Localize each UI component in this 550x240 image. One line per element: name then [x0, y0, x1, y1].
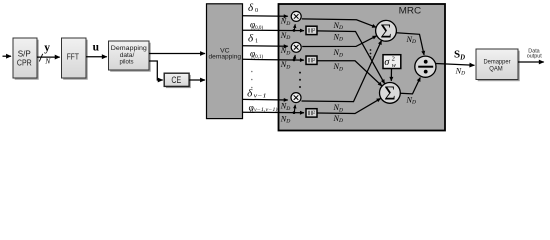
multiplier 3 [291, 93, 301, 103]
svg-text:δ: δ [248, 2, 254, 14]
CE block shadow [166, 75, 191, 88]
vertical dots near sum [370, 49, 372, 58]
svg-text:QAM: QAM [489, 65, 503, 72]
FFT block shadow [63, 40, 87, 80]
svg-text:2: 2 [313, 57, 315, 62]
S/P CPR block [13, 38, 37, 78]
svg-text:w: w [392, 62, 397, 69]
svg-text:MRC: MRC [399, 6, 422, 17]
wire box2 to sum bottom [317, 61, 382, 86]
svg-text:CE: CE [171, 75, 181, 85]
magnitude-square box 2 [306, 56, 317, 64]
svg-text:2: 2 [313, 27, 315, 32]
svg-text:δ: δ [248, 33, 254, 45]
VC demapping block [207, 4, 243, 119]
wire Demapping to VC demapping [149, 53, 205, 55]
wire phi_(0,0) to box [243, 29, 304, 31]
wire noise box to summer bottom [390, 68, 392, 81]
CE block [164, 73, 189, 86]
wire phi to box 3 [243, 111, 304, 114]
wire summer top to divider [396, 33, 424, 55]
magnitude-square box 1 [306, 26, 317, 34]
wire delta_1 to multiplier 2 [243, 45, 288, 48]
vertical dots left column [251, 71, 253, 89]
svg-text:pilots: pilots [120, 58, 135, 65]
MRC block background [279, 4, 446, 131]
wire summer bottom to divider [400, 78, 420, 94]
summer top [376, 20, 397, 42]
wire multiplier2 to sum top [302, 36, 376, 47]
vertical dots mid column [299, 72, 301, 88]
wire delta_0 to multiplier [243, 15, 288, 18]
tap arrow up into multiplier 3 [293, 105, 296, 113]
wire phi_(0,1) to box 2 [243, 58, 304, 61]
Demapping data/pilots block [109, 41, 150, 70]
Demapper QAM block shadow [478, 51, 520, 81]
wire delta_nu-1 to multiplier 3 [243, 98, 288, 101]
multiplier 1 [291, 11, 301, 21]
wire S/P to FFT [37, 56, 60, 58]
wire FFT to Demapping [86, 56, 107, 58]
Demapper QAM block [476, 49, 518, 80]
svg-text:demapping: demapping [209, 53, 242, 60]
FFT block [62, 38, 87, 78]
wire multiplier3 to sum top [302, 41, 382, 102]
wire box3 to sum bottom [317, 98, 381, 113]
magnitude-square box 3 [306, 109, 317, 117]
svg-text:output: output [527, 54, 542, 60]
noise variance box [383, 55, 401, 69]
wire multiplier1 to sum top [302, 19, 376, 27]
input wire [3, 55, 12, 57]
svg-text:FFT: FFT [67, 53, 79, 62]
Demapping data/pilots block shadow [110, 43, 151, 72]
svg-text:Σ: Σ [380, 22, 391, 43]
svg-text:Σ: Σ [384, 84, 395, 105]
summer bottom [380, 83, 401, 105]
wire box1 to sum bottom [317, 31, 385, 84]
svg-text:0: 0 [255, 7, 258, 14]
S/P CPR block shadow [15, 40, 39, 80]
tap arrow up into multiplier 2 [293, 55, 296, 60]
svg-text:ν−1: ν−1 [254, 92, 267, 99]
junction dot on phi_(0,0) wire [293, 29, 296, 32]
divider circle [415, 56, 436, 77]
svg-text:δ: δ [247, 88, 253, 100]
junction dot on phi wire 6 [293, 111, 296, 114]
bus slash on y wire [39, 54, 42, 62]
multiplier 2 [291, 42, 301, 52]
wire CE to VC demapping [189, 79, 205, 81]
svg-text:N: N [44, 57, 51, 66]
svg-text:1: 1 [255, 38, 258, 45]
junction dot on phi_(0,1) wire [293, 59, 296, 62]
svg-text:y: y [44, 42, 50, 54]
tap arrow up into multiplier 1 [293, 24, 296, 30]
svg-text:2: 2 [313, 110, 315, 115]
data output arrow [518, 61, 544, 63]
output wire divider to Demapper QAM [436, 64, 474, 66]
svg-text:CPR: CPR [17, 58, 32, 68]
wire Demapping to CE (elbow) [149, 61, 163, 80]
svg-text:u: u [93, 42, 100, 54]
